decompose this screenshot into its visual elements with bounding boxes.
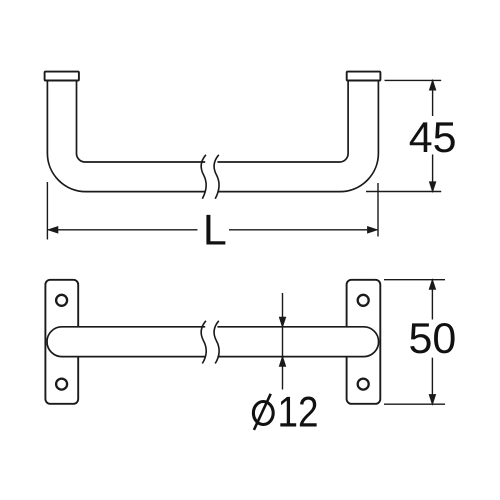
left mounting plate xyxy=(45,280,78,404)
svg-text:12: 12 xyxy=(278,388,319,436)
svg-text:50: 50 xyxy=(408,315,456,363)
right mounting plate xyxy=(347,280,381,404)
screw hole lower right xyxy=(358,379,369,390)
break line right (top view) xyxy=(214,155,219,199)
dimension line phi12 with arrows xyxy=(279,293,285,390)
right end cap xyxy=(347,72,381,81)
label phi symbol xyxy=(253,394,273,430)
svg-text:L: L xyxy=(203,206,227,254)
dimension line 45 with arrows xyxy=(430,80,436,191)
extension line right of L dimension xyxy=(377,183,379,237)
bar (bottom view rod with rounded ends) xyxy=(47,327,379,357)
dimension line L with arrows xyxy=(48,227,377,233)
break line left (top view) xyxy=(201,155,206,199)
screw hole upper left xyxy=(56,295,67,306)
svg-text:45: 45 xyxy=(409,114,457,162)
break gap mask (top view) xyxy=(205,159,217,196)
left end cap xyxy=(45,72,79,81)
extension line left of L dimension xyxy=(46,182,48,240)
extension line top of 45 dimension xyxy=(385,79,442,81)
screw hole lower left xyxy=(56,379,67,390)
screw hole upper right xyxy=(358,295,369,306)
break line right (bottom view) xyxy=(214,321,219,364)
break line left (bottom view) xyxy=(201,321,206,364)
extension line bottom of 50 dimension xyxy=(384,403,445,405)
extension line bottom of 45 dimension xyxy=(366,191,441,193)
extension line top of 50 dimension xyxy=(384,279,445,281)
tube body (top view U-shaped pipe) xyxy=(47,81,378,192)
dimension line 50 with arrows xyxy=(429,280,435,405)
break gap mask (bottom view) xyxy=(205,324,217,359)
